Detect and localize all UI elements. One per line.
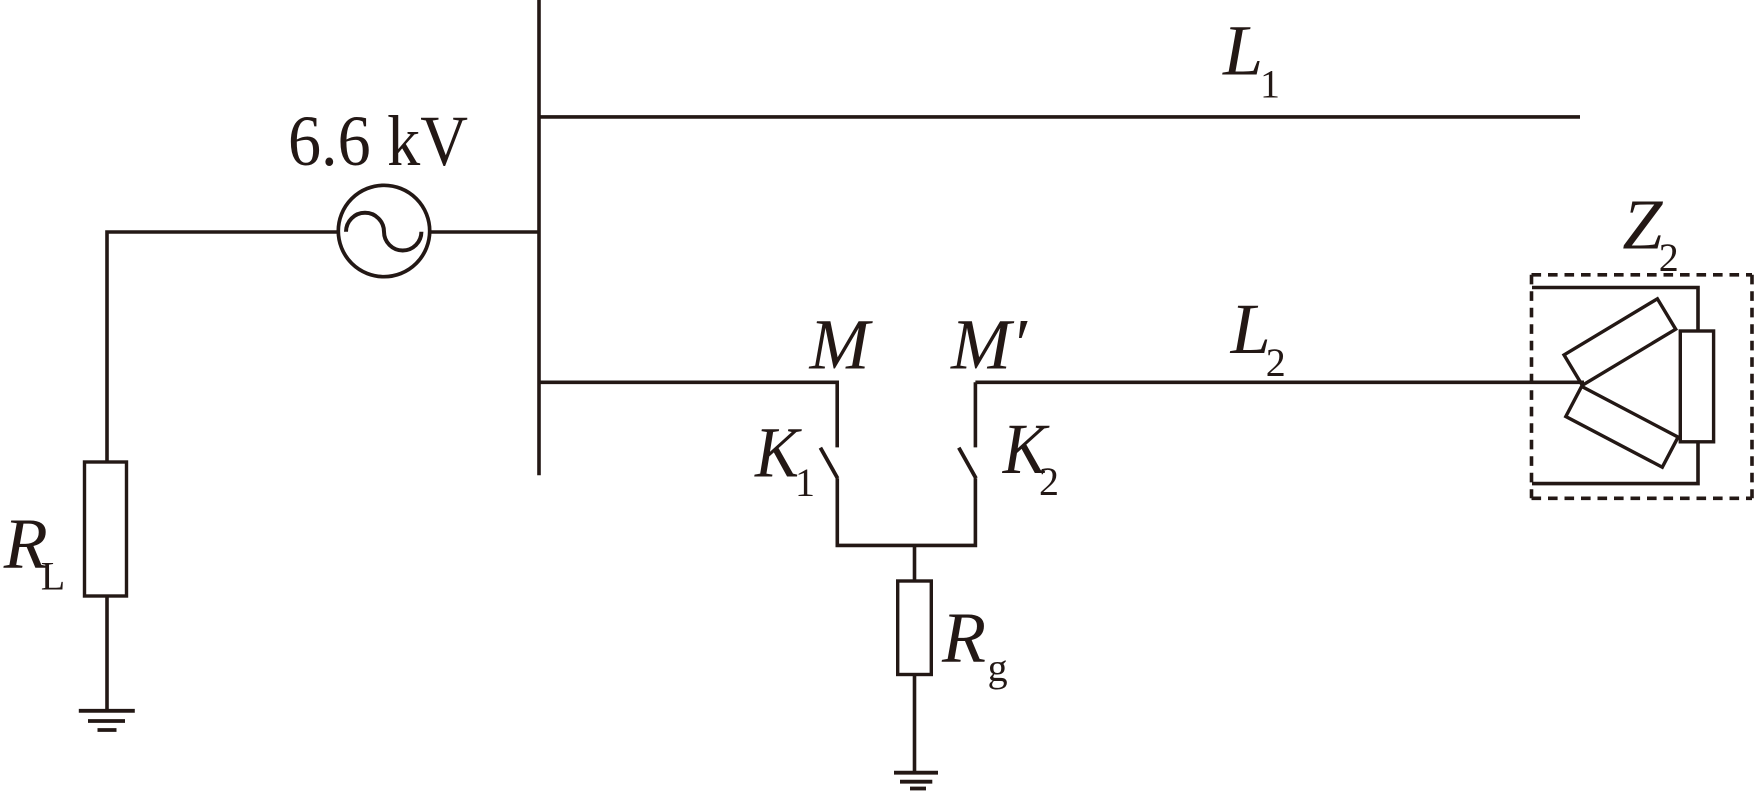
- wire: below RL to ground: [105, 596, 109, 709]
- wire: below Rg to ground: [913, 675, 917, 773]
- wire: feeder L2 from bus to node M, drop to switch K1: [539, 382, 837, 447]
- svg-text:2: 2: [1039, 459, 1059, 504]
- resistor RL (rectangle): [85, 462, 127, 596]
- ac source G (6.6 kV) circle with sine: [338, 185, 429, 276]
- svg-text:L: L: [41, 554, 65, 599]
- svg-text:2: 2: [1659, 235, 1679, 280]
- wire: source right terminal to bus: [430, 230, 540, 234]
- wire: Z2 internal top connection: [1532, 288, 1698, 332]
- impedance element: lower tilted rectangle in Z2: [1566, 386, 1678, 467]
- switch K1 blade: [820, 448, 837, 479]
- resistor Rg (rectangle): [898, 581, 932, 675]
- wire: feeder line L2 from M' to load Z2: [975, 380, 1584, 384]
- wire: stub from tie down to Rg: [913, 545, 917, 581]
- svg-text:1: 1: [1260, 61, 1280, 106]
- svg-text:L: L: [1222, 11, 1263, 91]
- dashed box: load Z2 enclosure: [1532, 275, 1753, 499]
- switch K2 blade: [959, 448, 976, 479]
- svg-text:L: L: [1230, 289, 1271, 369]
- svg-text:R: R: [941, 598, 986, 678]
- impedance element: upper tilted rectangle in Z2: [1564, 299, 1676, 386]
- svg-text:M′: M′: [950, 305, 1028, 385]
- svg-text:6.6 kV: 6.6 kV: [288, 101, 468, 181]
- svg-text:1: 1: [795, 460, 815, 505]
- wire: Z2 internal bottom connection: [1532, 442, 1698, 484]
- wire: source left terminal, down to RL: [107, 232, 339, 462]
- impedance element: right vertical rectangle in Z2: [1680, 331, 1713, 442]
- svg-text:Z: Z: [1622, 184, 1663, 264]
- wire: feeder line L1: [539, 115, 1580, 119]
- wire: below K1, tie to below K2: [837, 478, 975, 545]
- wire: drop from node M': [974, 382, 978, 447]
- svg-text:M: M: [809, 305, 874, 385]
- svg-text:g: g: [988, 645, 1008, 690]
- wire: station bus (vertical): [537, 0, 541, 475]
- ground symbol (under RL): [79, 711, 135, 730]
- svg-text:2: 2: [1266, 340, 1286, 385]
- ground symbol (under Rg): [894, 773, 938, 789]
